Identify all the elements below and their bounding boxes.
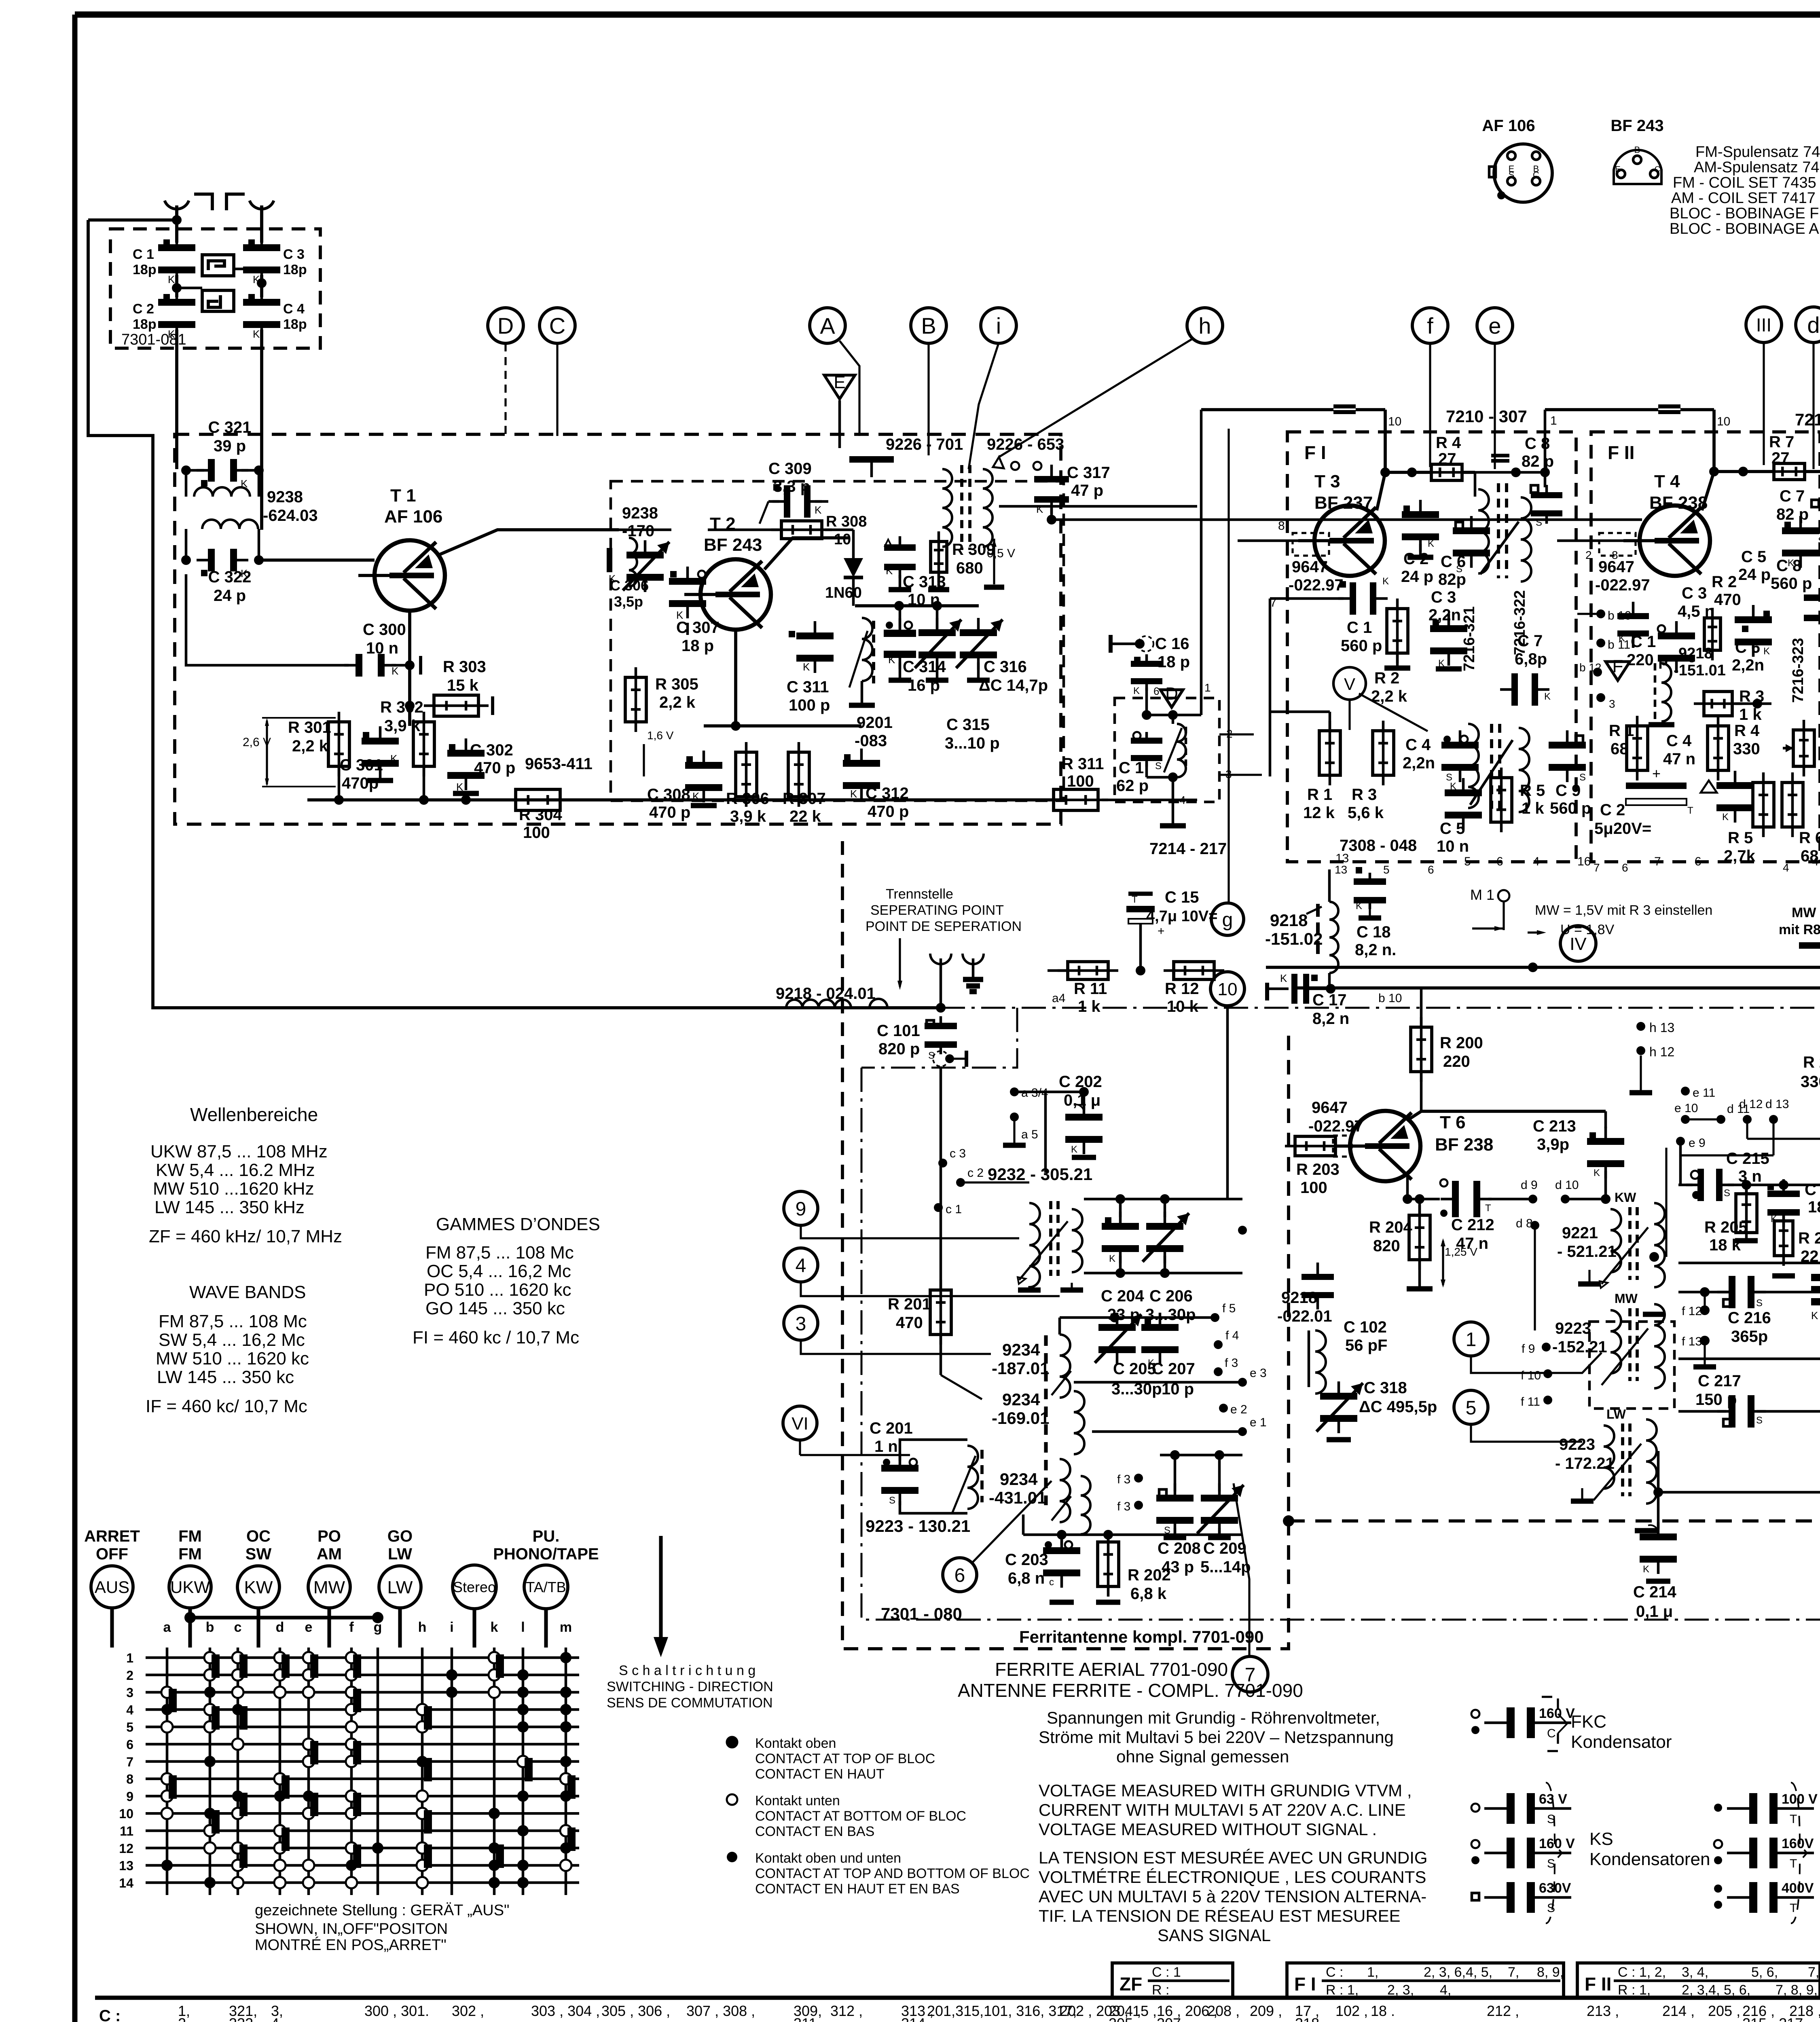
- svg-text:ΔC 495,5p: ΔC 495,5p: [1359, 1398, 1437, 1416]
- svg-text:22 k: 22 k: [789, 808, 821, 825]
- svg-text:2,2 k: 2,2 k: [659, 694, 696, 711]
- svg-text:9218: 9218: [1270, 911, 1308, 930]
- svg-text:S: S: [1756, 1298, 1763, 1309]
- svg-text:SWITCHING - DIRECTION: SWITCHING - DIRECTION: [607, 1679, 773, 1694]
- svg-text:K: K: [1643, 1564, 1649, 1575]
- svg-text:3: 3: [1609, 698, 1615, 710]
- svg-text:214 ,: 214 ,: [1662, 2003, 1695, 2019]
- svg-text:LA TENSION EST MESURÉE AVE: LA TENSION EST MESURÉE AVEC UN GRUNDIG: [1039, 1848, 1428, 1867]
- svg-text:10 k: 10 k: [1167, 998, 1199, 1015]
- svg-text:S: S: [1509, 170, 1515, 180]
- svg-text:SW 5,4 ... 16,2 Mc: SW 5,4 ... 16,2 Mc: [159, 1330, 305, 1350]
- svg-text:18 p: 18 p: [681, 637, 714, 655]
- svg-text:c: c: [1049, 1577, 1054, 1588]
- svg-text:T 6: T 6: [1440, 1113, 1466, 1132]
- svg-text:SANS SIGNAL: SANS SIGNAL: [1158, 1926, 1271, 1945]
- svg-text:322 ,: 322 ,: [229, 2015, 261, 2022]
- svg-text:S: S: [1579, 772, 1586, 783]
- svg-text:470: 470: [1714, 591, 1741, 609]
- svg-text:C 203: C 203: [1005, 1551, 1048, 1569]
- svg-text:T 4: T 4: [1654, 472, 1680, 491]
- svg-text:LW 145 ... 350 kHz: LW 145 ... 350 kHz: [154, 1197, 305, 1217]
- svg-text:TIF. LA TENSION DE RÉSEAU: TIF. LA TENSION DE RÉSEAU EST MESUREE: [1039, 1906, 1401, 1925]
- svg-text:f 10: f 10: [1521, 1369, 1541, 1382]
- svg-text:FM 87,5 ... 108 Mc: FM 87,5 ... 108 Mc: [425, 1243, 574, 1263]
- svg-text:820: 820: [1373, 1237, 1400, 1255]
- svg-text:AF 106: AF 106: [1482, 117, 1535, 135]
- svg-text:C 2: C 2: [1805, 1181, 1820, 1199]
- svg-text:560 p: 560 p: [1771, 575, 1812, 592]
- svg-text:R : 1,: R : 1,: [1618, 1982, 1651, 1998]
- svg-text:k: k: [491, 1620, 498, 1635]
- svg-text:R 308: R 308: [826, 513, 867, 530]
- svg-text:4: 4: [796, 1255, 806, 1276]
- svg-text:K: K: [803, 661, 810, 673]
- svg-text:Trennstelle: Trennstelle: [886, 886, 953, 902]
- svg-text:GO 145 ... 350 kc: GO 145 ... 350 kc: [425, 1299, 565, 1318]
- svg-text:43 p: 43 p: [1162, 1558, 1194, 1576]
- svg-text:3, 4,: 3, 4,: [1682, 1965, 1708, 1980]
- svg-text:T 3: T 3: [1314, 472, 1340, 491]
- svg-text:S c h a l t r i c h t u n g: S c h a l t r i c h t u n g: [619, 1663, 756, 1678]
- svg-text:UKW: UKW: [170, 1578, 210, 1597]
- svg-text:h 13: h 13: [1649, 1020, 1674, 1035]
- svg-text:C 301: C 301: [340, 756, 383, 774]
- svg-text:100: 100: [1067, 772, 1094, 790]
- svg-text:Ströme mit Multavi 5 bei 2: Ströme mit Multavi 5 bei 220V – Netzspan…: [1039, 1728, 1394, 1747]
- svg-text:C 212: C 212: [1451, 1216, 1494, 1234]
- svg-text:470: 470: [896, 1314, 923, 1332]
- svg-text:R 311: R 311: [1062, 755, 1104, 773]
- svg-text:312 ,: 312 ,: [830, 2003, 863, 2019]
- svg-text:c 2: c 2: [967, 1166, 984, 1180]
- svg-text:CONTACT AT TOP AND BOTTOM OF: CONTACT AT TOP AND BOTTOM OF BLOC: [755, 1866, 1030, 1881]
- svg-text:1: 1: [1466, 1329, 1477, 1350]
- svg-text:12 k: 12 k: [1303, 804, 1335, 822]
- svg-text:MONTRÉ EN POS„ARRET": MONTRÉ EN POS„ARRET": [255, 1936, 447, 1954]
- svg-text:R 200: R 200: [1440, 1034, 1483, 1052]
- svg-text:K: K: [1280, 972, 1287, 984]
- svg-text:d 9: d 9: [1521, 1178, 1538, 1192]
- svg-text:160 V: 160 V: [1539, 1836, 1575, 1851]
- svg-text:R 4: R 4: [1436, 434, 1461, 452]
- svg-text:OFF: OFF: [96, 1545, 128, 1563]
- svg-text:1 k: 1 k: [1522, 799, 1544, 817]
- svg-text:CONTACT EN BAS: CONTACT EN BAS: [755, 1824, 874, 1839]
- svg-text:WAVE BANDS: WAVE BANDS: [189, 1282, 306, 1302]
- svg-text:R : 1,: R : 1,: [1326, 1982, 1359, 1998]
- svg-text:C 3: C 3: [1431, 588, 1456, 606]
- svg-text:R 2: R 2: [1712, 573, 1737, 591]
- svg-text:9234: 9234: [1002, 1340, 1040, 1359]
- svg-text:E: E: [1615, 165, 1620, 174]
- svg-text:C 216: C 216: [1728, 1309, 1771, 1327]
- svg-text:C 2: C 2: [133, 301, 154, 317]
- svg-text:- 521.21: - 521.21: [1557, 1243, 1617, 1261]
- svg-text:100: 100: [523, 824, 550, 842]
- svg-text:C 102: C 102: [1344, 1318, 1387, 1336]
- svg-text:-151.01: -151.01: [1674, 662, 1726, 679]
- svg-text:S: S: [1536, 517, 1542, 528]
- svg-text:T: T: [1790, 1901, 1797, 1915]
- svg-text:7308 - 048: 7308 - 048: [1340, 837, 1417, 854]
- svg-text:FM 87,5 ... 108 Mc: FM 87,5 ... 108 Mc: [159, 1311, 307, 1331]
- svg-text:18 p: 18 p: [1158, 653, 1190, 671]
- svg-text:KW 5,4 ... 16.2 MHz: KW 5,4 ... 16.2 MHz: [156, 1160, 315, 1180]
- svg-text:C 314: C 314: [903, 658, 946, 676]
- svg-text:- 172.21: - 172.21: [1555, 1455, 1615, 1472]
- svg-text:K: K: [1036, 503, 1043, 515]
- svg-text:9647: 9647: [1312, 1099, 1348, 1117]
- svg-text:Kontakt oben: Kontakt oben: [755, 1736, 836, 1751]
- svg-text:T: T: [1790, 1857, 1797, 1870]
- svg-text:R 305: R 305: [655, 675, 698, 693]
- svg-text:+: +: [1652, 765, 1661, 782]
- svg-text:C 1: C 1: [1119, 759, 1144, 777]
- svg-text:R 306: R 306: [726, 790, 769, 808]
- svg-text:K: K: [390, 753, 398, 765]
- svg-text:C 7: C 7: [1780, 487, 1805, 505]
- svg-text:100: 100: [1300, 1179, 1327, 1197]
- svg-text:2, 3,: 2, 3,: [1387, 1982, 1414, 1998]
- svg-text:Spannungen mit Grundig - Röh: Spannungen mit Grundig - Röhrenvoltmeter…: [1047, 1708, 1380, 1727]
- svg-text:UKW 87,5 ... 108 MHz: UKW 87,5 ... 108 MHz: [150, 1142, 328, 1161]
- svg-text:C 201: C 201: [870, 1419, 913, 1437]
- svg-text:K: K: [1722, 812, 1729, 823]
- svg-text:f 9: f 9: [1522, 1342, 1535, 1356]
- svg-text:C 9: C 9: [1555, 782, 1581, 799]
- svg-text:e 11: e 11: [1693, 1086, 1715, 1100]
- svg-text:18p: 18p: [133, 262, 157, 277]
- svg-text:FM - COIL SET 7435 -: FM - COIL SET 7435 -: [1673, 174, 1820, 191]
- svg-text:13: 13: [119, 1859, 133, 1873]
- svg-text:d 13: d 13: [1765, 1098, 1789, 1111]
- svg-text:C 1: C 1: [1631, 633, 1656, 651]
- svg-text:c 3: c 3: [950, 1147, 966, 1160]
- svg-text:680: 680: [956, 559, 983, 577]
- svg-text:C 312: C 312: [866, 785, 909, 802]
- svg-text:C 207: C 207: [1152, 1360, 1195, 1378]
- svg-text:K: K: [1594, 1168, 1600, 1178]
- svg-text:68: 68: [1610, 740, 1629, 758]
- svg-text:470 p: 470 p: [868, 803, 909, 821]
- svg-text:C 101: C 101: [877, 1022, 920, 1040]
- svg-text:K: K: [850, 788, 857, 800]
- svg-text:2,2n: 2,2n: [1428, 606, 1461, 624]
- svg-text:C : 1, 2,: C : 1, 2,: [1618, 1965, 1666, 1980]
- svg-text:K: K: [1133, 685, 1140, 696]
- svg-text:8,2 n: 8,2 n: [1312, 1010, 1349, 1028]
- svg-text:3...10 p: 3...10 p: [945, 734, 1000, 752]
- svg-text:T 1: T 1: [390, 486, 416, 505]
- svg-text:314 ,: 314 ,: [901, 2015, 933, 2022]
- svg-text:3,9 k: 3,9 k: [730, 808, 766, 825]
- svg-text:MW: MW: [313, 1578, 345, 1597]
- svg-text:102 ,: 102 ,: [1335, 2003, 1368, 2019]
- svg-text:18p: 18p: [133, 317, 157, 332]
- svg-text:KS: KS: [1589, 1829, 1613, 1849]
- svg-text:CONTACT AT TOP OF BLOC: CONTACT AT TOP OF BLOC: [755, 1751, 935, 1766]
- svg-text:BLOC - BOBINAGE FM -: BLOC - BOBINAGE FM -: [1670, 205, 1820, 222]
- svg-text:e 3: e 3: [1250, 1366, 1267, 1380]
- svg-text:AUS: AUS: [95, 1578, 129, 1597]
- svg-text:C 315: C 315: [946, 716, 990, 734]
- svg-text:5: 5: [1464, 855, 1471, 868]
- svg-text:-022.97: -022.97: [1595, 576, 1650, 594]
- svg-text:C 318: C 318: [1364, 1379, 1407, 1397]
- svg-text:307 , 308 ,: 307 , 308 ,: [686, 2003, 755, 2019]
- svg-text:-431.01: -431.01: [989, 1488, 1046, 1507]
- svg-text:8: 8: [1278, 519, 1285, 533]
- svg-text:470p: 470p: [342, 774, 379, 792]
- svg-text:VI: VI: [791, 1414, 808, 1434]
- svg-text:9238: 9238: [622, 504, 658, 522]
- svg-text:T: T: [1687, 805, 1693, 816]
- svg-text:f: f: [1427, 313, 1433, 338]
- svg-text:SHOWN, IN„OFF"POSITON: SHOWN, IN„OFF"POSITON: [255, 1920, 448, 1937]
- svg-text:f 13: f 13: [1682, 1335, 1702, 1348]
- svg-text:F II: F II: [1585, 1973, 1611, 1995]
- svg-text:15 k: 15 k: [447, 677, 479, 694]
- svg-text:K: K: [1428, 538, 1434, 549]
- svg-text:K: K: [1450, 781, 1456, 792]
- svg-text:2, 3, 6,4, 5,: 2, 3, 6,4, 5,: [1424, 1965, 1492, 1980]
- svg-text:7216-321: 7216-321: [1461, 606, 1478, 671]
- svg-text:2 ,: 2 ,: [178, 2015, 194, 2022]
- svg-text:24 p: 24 p: [1738, 566, 1771, 584]
- svg-text:e: e: [305, 1620, 313, 1635]
- svg-text:5...14p: 5...14p: [1200, 1558, 1251, 1576]
- svg-text:R :: R :: [1152, 1982, 1169, 1998]
- svg-text:d 10: d 10: [1555, 1178, 1579, 1192]
- svg-text:9223: 9223: [1555, 1320, 1591, 1337]
- svg-text:400V: 400V: [1782, 1880, 1814, 1896]
- svg-text:10: 10: [1388, 415, 1401, 428]
- svg-text:C: C: [549, 313, 565, 338]
- svg-text:9647: 9647: [1292, 558, 1328, 576]
- svg-text:C 302: C 302: [470, 741, 513, 759]
- svg-text:302 ,: 302 ,: [452, 2003, 484, 2019]
- svg-text:Ferritantenne kompl. 7701-090: Ferritantenne kompl. 7701-090: [1019, 1627, 1264, 1646]
- svg-text:1,25 V: 1,25 V: [1445, 1246, 1477, 1258]
- svg-text:VOLTAGE MEASURED WITHOUT SI: VOLTAGE MEASURED WITHOUT SIGNAL .: [1039, 1820, 1377, 1839]
- svg-text:d: d: [276, 1620, 284, 1635]
- svg-text:-152.21: -152.21: [1552, 1338, 1607, 1356]
- svg-text:9653-411: 9653-411: [525, 755, 593, 773]
- svg-text:K: K: [1071, 1144, 1077, 1155]
- svg-text:a: a: [163, 1620, 171, 1635]
- svg-text:K: K: [1763, 646, 1770, 657]
- svg-text:5,6 k: 5,6 k: [1348, 804, 1384, 822]
- svg-text:C 309: C 309: [768, 460, 812, 478]
- svg-text:13: 13: [1335, 863, 1347, 876]
- svg-text:C 209: C 209: [1203, 1540, 1246, 1557]
- svg-text:GO: GO: [387, 1527, 413, 1545]
- svg-text:9234: 9234: [1000, 1470, 1038, 1489]
- svg-text:R 11: R 11: [1074, 980, 1107, 998]
- svg-text:-151.02: -151.02: [1265, 929, 1323, 948]
- svg-text:f 5: f 5: [1222, 1302, 1236, 1315]
- svg-text:F I: F I: [1294, 1973, 1316, 1995]
- svg-text:82p: 82p: [1438, 571, 1466, 588]
- svg-text:LW 145 ... 350 kc: LW 145 ... 350 kc: [157, 1367, 294, 1387]
- svg-text:S: S: [1756, 1415, 1763, 1426]
- svg-text:-022.97: -022.97: [1289, 576, 1344, 594]
- svg-text:C 308: C 308: [647, 786, 690, 804]
- svg-text:9218: 9218: [1678, 645, 1713, 662]
- svg-text:4: 4: [126, 1703, 133, 1717]
- svg-text:2,2n: 2,2n: [1732, 656, 1764, 674]
- svg-text:212 ,: 212 ,: [1487, 2003, 1519, 2019]
- svg-text:11: 11: [120, 1824, 133, 1838]
- svg-text:d: d: [1807, 312, 1820, 338]
- svg-text:9226 - 653: 9226 - 653: [987, 436, 1064, 453]
- svg-text:82 p: 82 p: [1522, 453, 1554, 470]
- svg-text:e 2: e 2: [1230, 1403, 1247, 1416]
- svg-text:9: 9: [796, 1198, 806, 1220]
- svg-text:C 311: C 311: [787, 678, 829, 696]
- svg-text:205 ,: 205 ,: [1109, 2015, 1141, 2022]
- svg-text:330: 330: [1801, 1073, 1820, 1091]
- svg-text:MW 510 ... 1620 kc: MW 510 ... 1620 kc: [156, 1349, 309, 1368]
- svg-text:PO: PO: [317, 1527, 341, 1545]
- svg-text:7: 7: [1654, 855, 1661, 868]
- svg-text:d 12: d 12: [1739, 1098, 1763, 1111]
- svg-text:PO 510 ... 1620 kc: PO 510 ... 1620 kc: [424, 1280, 571, 1300]
- svg-text:C : 1: C : 1: [1152, 1965, 1181, 1980]
- svg-text:7,: 7,: [1508, 1965, 1519, 1980]
- svg-text:14: 14: [119, 1876, 133, 1890]
- svg-text:K: K: [1109, 1253, 1115, 1264]
- svg-text:4: 4: [1812, 855, 1819, 868]
- svg-text:560 p: 560 p: [1550, 799, 1591, 817]
- svg-text:6,8 n: 6,8 n: [1008, 1569, 1045, 1587]
- svg-text:1: 1: [1550, 414, 1557, 427]
- svg-text:T: T: [1790, 1813, 1797, 1826]
- svg-text:l: l: [521, 1620, 525, 1635]
- svg-text:220: 220: [1443, 1053, 1470, 1070]
- svg-text:2, 3,4, 5, 6,: 2, 3,4, 5, 6,: [1682, 1982, 1750, 1998]
- svg-text:IV: IV: [1570, 934, 1587, 954]
- svg-text:1: 1: [126, 1651, 133, 1665]
- svg-text:6: 6: [1153, 685, 1159, 697]
- svg-text:5, 6,: 5, 6,: [1751, 1965, 1778, 1980]
- svg-text:R 7: R 7: [1769, 433, 1794, 451]
- svg-text:B: B: [921, 313, 936, 338]
- svg-text:-624.03: -624.03: [263, 507, 318, 525]
- svg-text:R 12: R 12: [1165, 980, 1199, 998]
- svg-text:8,2 n.: 8,2 n.: [1355, 941, 1396, 959]
- svg-text:5: 5: [126, 1720, 133, 1734]
- svg-text:f 12: f 12: [1682, 1305, 1702, 1318]
- svg-text:2: 2: [126, 1668, 133, 1683]
- svg-text:C 204: C 204: [1101, 1287, 1144, 1305]
- svg-text:e 1: e 1: [1250, 1416, 1267, 1429]
- svg-text:7: 7: [126, 1755, 133, 1769]
- svg-text:7210 - 307: 7210 - 307: [1446, 407, 1527, 426]
- svg-text:CURRENT WITH MULTAVI 5 AT: CURRENT WITH MULTAVI 5 AT 220V A.C. LINE: [1039, 1800, 1406, 1819]
- svg-text:S: S: [889, 1495, 895, 1506]
- svg-text:C: C: [1547, 1727, 1556, 1740]
- svg-text:R 6: R 6: [1799, 829, 1820, 847]
- svg-text:C 300: C 300: [363, 621, 406, 639]
- svg-text:100 p: 100 p: [789, 696, 830, 714]
- svg-text:10: 10: [1717, 415, 1730, 428]
- svg-text:Kondensatoren: Kondensatoren: [1589, 1849, 1710, 1869]
- svg-text:9201: 9201: [857, 714, 893, 732]
- svg-text:K: K: [1356, 901, 1362, 912]
- svg-text:4,7μ 10V=: 4,7μ 10V=: [1146, 908, 1217, 925]
- svg-text:CONTACT EN HAUT: CONTACT EN HAUT: [755, 1766, 885, 1782]
- svg-text:207 ,: 207 ,: [1157, 2015, 1189, 2022]
- svg-text:9226 - 701: 9226 - 701: [886, 436, 963, 453]
- svg-text:i: i: [450, 1620, 453, 1635]
- svg-text:C 2: C 2: [1600, 801, 1625, 819]
- svg-text:e 9: e 9: [1689, 1136, 1706, 1150]
- svg-text:47 n: 47 n: [1663, 750, 1695, 768]
- svg-text:C 317: C 317: [1067, 464, 1110, 482]
- svg-text:R 205: R 205: [1704, 1218, 1748, 1236]
- svg-text:7301 - 080: 7301 - 080: [881, 1604, 962, 1623]
- svg-text:e: e: [1488, 313, 1501, 338]
- svg-text:VOLTAGE MEASURED WITH GRUND: VOLTAGE MEASURED WITH GRUNDIG VTVM ,: [1039, 1781, 1412, 1800]
- svg-text:7210 -: 7210 -: [1795, 410, 1820, 429]
- svg-text:3: 3: [796, 1313, 806, 1335]
- svg-text:R 301: R 301: [288, 719, 331, 736]
- svg-text:8: 8: [1612, 549, 1618, 561]
- svg-text:47 p: 47 p: [1071, 482, 1103, 499]
- svg-text:PU.: PU.: [533, 1527, 560, 1545]
- svg-text:213 ,: 213 ,: [1587, 2003, 1619, 2019]
- svg-text:C 214: C 214: [1633, 1583, 1676, 1601]
- svg-text:C 1: C 1: [1347, 619, 1372, 637]
- svg-text:18: 18: [1808, 1198, 1820, 1216]
- svg-text:7,8,: 7,8,: [1808, 1965, 1820, 1980]
- svg-text:K: K: [1811, 1309, 1818, 1322]
- svg-text:R 204: R 204: [1369, 1218, 1412, 1236]
- svg-text:365p: 365p: [1731, 1328, 1768, 1345]
- svg-text:MW = 1,5V mit R 3 einstelle: MW = 1,5V mit R 3 einstellen: [1535, 903, 1712, 918]
- svg-text:FERRITE AERIAL 7701-090: FERRITE AERIAL 7701-090: [995, 1659, 1228, 1680]
- svg-text:C 16: C 16: [1155, 635, 1189, 653]
- svg-text:-083: -083: [855, 732, 887, 750]
- svg-text:FM: FM: [178, 1545, 202, 1563]
- svg-text:K: K: [815, 504, 822, 516]
- svg-text:6,8 k: 6,8 k: [1130, 1585, 1167, 1603]
- svg-text:2,2 k: 2,2 k: [292, 737, 328, 755]
- svg-text:9: 9: [126, 1789, 133, 1804]
- svg-text:C 215: C 215: [1726, 1150, 1769, 1168]
- svg-text:h: h: [1198, 313, 1211, 338]
- svg-text:C 3: C 3: [283, 247, 305, 262]
- svg-text:POINT DE SEPERATION: POINT DE SEPERATION: [866, 919, 1022, 934]
- svg-text:7214 - 217: 7214 - 217: [1149, 840, 1227, 858]
- svg-text:R 1: R 1: [1307, 786, 1332, 804]
- svg-text:4 ,: 4 ,: [271, 2015, 287, 2022]
- svg-text:10: 10: [1218, 979, 1238, 999]
- svg-text:303 , 304 ,: 303 , 304 ,: [531, 2003, 600, 2019]
- svg-text:215 , 217,: 215 , 217,: [1742, 2015, 1807, 2022]
- svg-text:f 11: f 11: [1521, 1395, 1540, 1409]
- svg-text:h 12: h 12: [1649, 1045, 1674, 1059]
- svg-text:13: 13: [1335, 852, 1349, 865]
- svg-text:5μ20V=: 5μ20V=: [1594, 820, 1651, 838]
- svg-text:C 1: C 1: [133, 247, 154, 262]
- svg-text:C 208: C 208: [1158, 1540, 1201, 1557]
- svg-text:R 1: R 1: [1609, 722, 1634, 740]
- svg-text:2,2n: 2,2n: [1403, 754, 1435, 772]
- svg-text:39 p: 39 p: [214, 437, 246, 455]
